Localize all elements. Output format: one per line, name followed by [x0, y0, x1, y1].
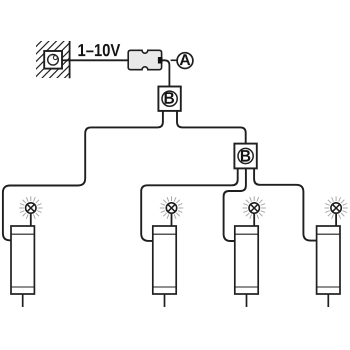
label 1-10V — [78, 44, 120, 56]
wire B2 middle branch to lamp 3 — [224, 169, 246, 241]
ballast box B1 — [158, 87, 180, 111]
lamp L1 — [11, 196, 43, 307]
wire B1 left branch to lamp 1 — [3, 111, 163, 240]
wire to indicator A — [171, 59, 178, 61]
lamp L2 — [153, 196, 183, 307]
wire B2 left branch to lamp 2 — [141, 169, 238, 241]
ballast box B2 — [234, 144, 256, 169]
wire B1 right branch to B2 — [177, 111, 246, 144]
wire B2 right branch to lamp 4 — [254, 169, 317, 241]
dimmer wall hatch — [36, 41, 70, 78]
wire dimmer to connector — [62, 59, 129, 61]
dimmer control (rotary knob) — [44, 51, 62, 69]
connector (control unit) — [128, 50, 161, 69]
wire pin down to ballast B1 — [162, 60, 169, 86]
lamp L4 — [317, 196, 348, 307]
wall surface line — [69, 41, 71, 78]
connector output pin — [158, 57, 163, 64]
lamp L3 — [235, 196, 266, 307]
indicator circle A — [177, 53, 193, 69]
